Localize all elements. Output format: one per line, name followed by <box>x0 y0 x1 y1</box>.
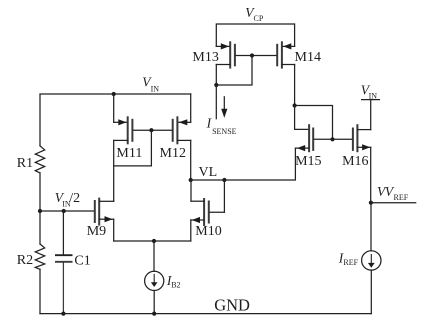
wire: left branch top to VIN rail <box>40 94 191 146</box>
label R1 <box>17 156 33 171</box>
wire: VVREF stub right <box>371 202 416 204</box>
svg-text:M13: M13 <box>192 50 218 65</box>
junction: C1 GND dot <box>61 312 65 316</box>
label M14 <box>295 50 321 65</box>
label R2 <box>17 253 33 268</box>
wire: M16 source to VVREF node <box>370 147 372 202</box>
current source IB2 <box>145 271 164 290</box>
junction: tail dot <box>152 239 156 243</box>
label M10 <box>195 224 221 239</box>
transistor M11 <box>114 117 152 143</box>
node VCP label <box>245 5 264 23</box>
svg-text:VL: VL <box>199 165 218 180</box>
wire: M10 source drop <box>190 220 192 241</box>
transistor M9 <box>95 199 114 225</box>
wire: VVREF node to IREF <box>370 203 372 251</box>
transistor M13 <box>216 42 252 67</box>
wire: R1 to VIN/2 node <box>39 173 41 211</box>
svg-text:SENSE: SENSE <box>212 127 237 136</box>
junction: M13/M14 gate node dot <box>250 53 254 57</box>
label M16 <box>342 154 368 169</box>
junction: M11/M12 gate dot <box>149 128 153 132</box>
wire: IB2 to GND <box>153 291 155 314</box>
label I_SENSE <box>206 115 237 136</box>
svg-text:M12: M12 <box>160 146 186 161</box>
svg-text:CP: CP <box>254 14 264 23</box>
wire: R2 to GND <box>39 269 41 313</box>
wire: VL to M15 source <box>191 148 296 180</box>
junction: VIN/2 dot <box>38 209 42 213</box>
junction: VVREF dot <box>369 201 373 205</box>
wire: VCP rail <box>216 24 294 46</box>
junction: M10 gate dot <box>222 178 226 182</box>
svg-text:GND: GND <box>214 296 250 315</box>
transistor M16 <box>333 125 371 151</box>
transistor M10 <box>191 199 225 225</box>
label M15 <box>295 154 321 169</box>
wire: M11 source drop <box>113 94 115 122</box>
junction: M13 drain dot <box>214 83 218 87</box>
wire: M11 drain to M9 drain <box>113 140 115 201</box>
wire: tail to IB2 <box>153 241 155 271</box>
junction: IB2 GND dot <box>152 312 156 316</box>
wire: M16 drain to VIN <box>370 100 372 130</box>
wire: M14 drain drop <box>294 65 296 106</box>
svg-text:REF: REF <box>343 258 358 267</box>
transistor M12 <box>151 117 190 143</box>
node GND label <box>214 296 250 315</box>
junction: VL dot left <box>189 178 193 182</box>
node VL label <box>199 165 218 180</box>
wire: M11 gate-drain tie <box>114 130 152 166</box>
label M11 <box>116 146 142 161</box>
node VIN/2 label <box>55 190 80 209</box>
svg-text:B2: B2 <box>171 281 180 290</box>
svg-text:R2: R2 <box>17 253 33 268</box>
label IREF <box>338 251 359 267</box>
label M9 <box>87 224 106 239</box>
wire: M14 drain to M15/M16 gates <box>295 106 333 140</box>
resistor R1 <box>35 146 44 173</box>
svg-text:M14: M14 <box>295 50 321 65</box>
wire: M9 source drop <box>113 219 115 241</box>
wire: M12 drain to VL <box>190 140 192 180</box>
transistor M15 <box>295 125 332 151</box>
wire: M12 source drop <box>190 94 192 122</box>
wire: M13 drain drop <box>215 65 217 86</box>
svg-text:C1: C1 <box>74 253 90 268</box>
wire: M10 gate riser <box>223 180 225 212</box>
wire: M13 gate-drain tie <box>216 56 252 86</box>
arrow: I_SENSE current <box>221 97 227 118</box>
wire: M14 drain to M15 drain <box>295 106 310 130</box>
wire: M10 drain to VL <box>190 180 192 201</box>
junction: C1 top dot <box>62 209 66 213</box>
current source IREF <box>362 251 381 270</box>
junction: M15/M16 gate dot <box>330 137 334 141</box>
capacitor C1 <box>56 211 72 314</box>
label C1 <box>74 253 90 268</box>
svg-text:M15: M15 <box>295 154 321 169</box>
label IB2 <box>166 273 181 290</box>
wire: IREF to GND <box>370 270 372 314</box>
junction: VIN rail dot <box>112 92 116 96</box>
svg-text:R1: R1 <box>17 156 33 171</box>
node VIN top label <box>142 75 159 94</box>
svg-text:REF: REF <box>394 193 409 202</box>
wire: M9/M10 source rail <box>114 240 191 242</box>
resistor R2 <box>35 244 44 269</box>
wire: GND rail <box>40 313 371 315</box>
label M13 <box>192 50 218 65</box>
junction: M14 drain dot <box>293 103 297 107</box>
node VIN right label <box>361 83 377 101</box>
svg-text:M11: M11 <box>116 146 142 161</box>
wire: VIN right tick <box>362 99 380 101</box>
svg-text:M10: M10 <box>195 224 221 239</box>
svg-text:M16: M16 <box>342 154 368 169</box>
label M12 <box>160 146 186 161</box>
svg-text:IN: IN <box>151 85 160 94</box>
svg-text:/2: /2 <box>69 191 80 206</box>
wire: VIN/2 node to R2 <box>39 211 41 244</box>
node VVREF label <box>377 184 409 202</box>
wire: VIN/2 to M9 gate <box>40 210 94 212</box>
wire: I_SENSE stub <box>215 85 217 119</box>
svg-text:M9: M9 <box>87 224 106 239</box>
transistor M14 <box>252 42 295 67</box>
